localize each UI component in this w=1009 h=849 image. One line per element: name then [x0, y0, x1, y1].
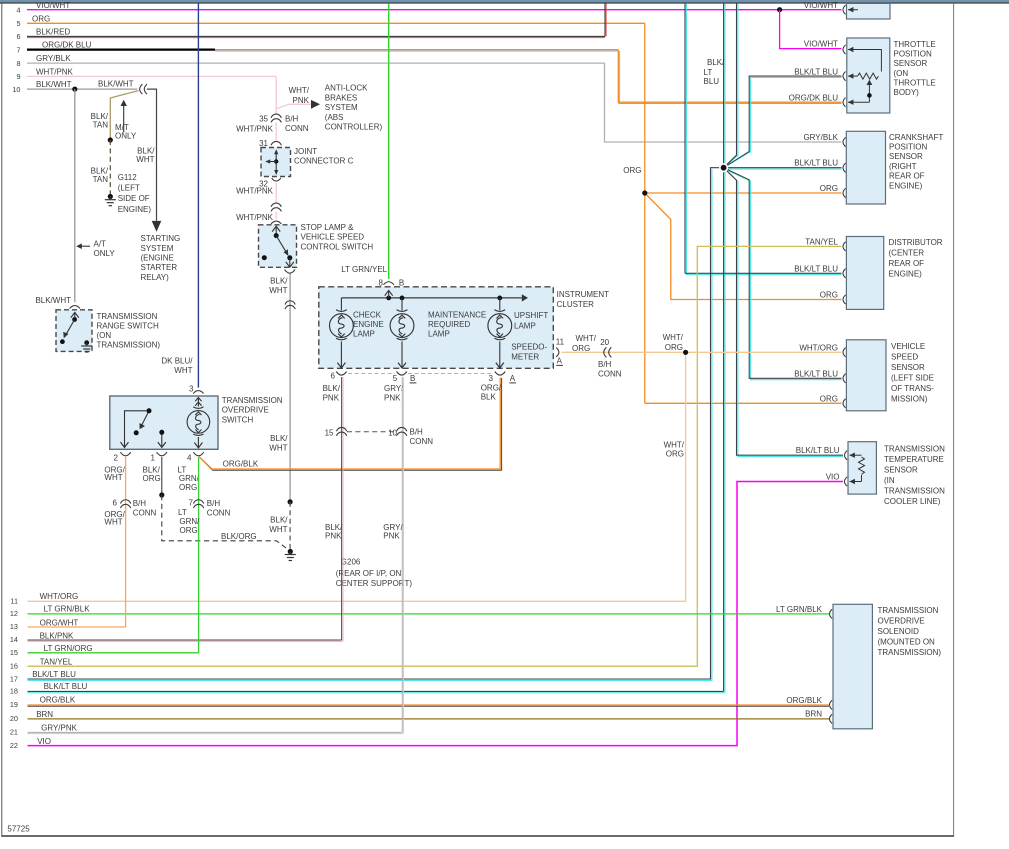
svg-text:BLK/: BLK/: [143, 466, 161, 475]
svg-text:(ABS: (ABS: [325, 113, 344, 122]
svg-text:COOLER LINE): COOLER LINE): [884, 497, 941, 506]
svg-text:13: 13: [10, 622, 18, 631]
svg-text:GRN/: GRN/: [179, 517, 200, 526]
svg-text:BLK/LT BLU: BLK/LT BLU: [44, 682, 88, 691]
svg-text:BLK/LT BLU: BLK/LT BLU: [32, 670, 76, 679]
svg-text:POSITION: POSITION: [894, 49, 932, 58]
svg-text:12: 12: [10, 609, 18, 618]
svg-text:4: 4: [187, 453, 192, 462]
svg-text:ORG: ORG: [820, 394, 838, 403]
svg-text:ORG/DK BLU: ORG/DK BLU: [789, 93, 839, 102]
svg-text:STARTING: STARTING: [141, 234, 181, 243]
svg-text:57725: 57725: [7, 825, 30, 834]
svg-text:OVERDRIVE: OVERDRIVE: [878, 616, 925, 625]
svg-text:B/H: B/H: [598, 360, 612, 369]
svg-text:G206: G206: [341, 558, 361, 567]
svg-text:11: 11: [10, 597, 18, 606]
svg-text:GRY/BLK: GRY/BLK: [803, 133, 838, 142]
svg-text:WHT: WHT: [104, 518, 122, 527]
svg-text:(IN: (IN: [884, 476, 895, 485]
svg-text:ORG: ORG: [32, 14, 50, 23]
svg-text:MAINTENANCE: MAINTENANCE: [428, 310, 486, 319]
svg-text:17: 17: [10, 674, 18, 683]
svg-text:CHECK: CHECK: [353, 310, 382, 319]
svg-text:10: 10: [388, 429, 397, 438]
svg-text:(ON: (ON: [894, 69, 909, 78]
svg-text:LAMP: LAMP: [428, 329, 450, 338]
svg-text:(REAR OF I/P, ON: (REAR OF I/P, ON: [336, 569, 402, 578]
svg-text:WHT: WHT: [269, 525, 287, 534]
svg-text:CONN: CONN: [207, 509, 231, 518]
svg-text:3: 3: [189, 385, 194, 394]
svg-text:ORG/DK BLU: ORG/DK BLU: [42, 41, 92, 50]
svg-text:1: 1: [151, 453, 156, 462]
svg-text:CENTER SUPPORT): CENTER SUPPORT): [336, 579, 413, 588]
svg-text:ENGINE): ENGINE): [118, 205, 152, 214]
svg-text:TRANSMISSION: TRANSMISSION: [884, 445, 945, 454]
svg-text:ONLY: ONLY: [115, 132, 137, 141]
svg-text:CONN: CONN: [598, 370, 622, 379]
svg-text:BLK/PNK: BLK/PNK: [40, 631, 74, 640]
svg-text:CLUSTER: CLUSTER: [557, 300, 595, 309]
svg-text:GRY/: GRY/: [383, 523, 403, 532]
svg-text:CONTROL SWITCH: CONTROL SWITCH: [301, 242, 374, 251]
svg-text:REAR OF: REAR OF: [889, 259, 925, 268]
svg-text:WHT/PNK: WHT/PNK: [236, 187, 274, 196]
svg-text:WHT/ORG: WHT/ORG: [40, 592, 79, 601]
svg-text:CONN: CONN: [285, 124, 309, 133]
svg-text:BLK/WHT: BLK/WHT: [35, 296, 71, 305]
svg-text:BRN: BRN: [36, 710, 53, 719]
svg-text:BLK/: BLK/: [325, 523, 343, 532]
svg-text:PNK: PNK: [293, 96, 310, 105]
svg-text:35: 35: [259, 115, 268, 124]
svg-text:15: 15: [325, 429, 334, 438]
svg-text:WHT/PNK: WHT/PNK: [236, 125, 274, 134]
svg-text:20: 20: [600, 338, 609, 347]
svg-text:WHT/PNK: WHT/PNK: [36, 68, 74, 77]
svg-text:BLK/: BLK/: [270, 276, 288, 285]
svg-text:LT GRN/BLK: LT GRN/BLK: [44, 605, 91, 614]
svg-text:CONTROLLER): CONTROLLER): [325, 123, 383, 132]
svg-text:ORG/BLK: ORG/BLK: [786, 696, 822, 705]
svg-text:ORG: ORG: [820, 291, 838, 300]
svg-text:3: 3: [489, 374, 494, 383]
svg-text:B/H: B/H: [133, 499, 147, 508]
svg-text:ANTI-LOCK: ANTI-LOCK: [325, 84, 368, 93]
svg-text:31: 31: [259, 139, 268, 148]
svg-text:LT: LT: [178, 508, 187, 517]
svg-text:CONN: CONN: [410, 437, 434, 446]
svg-text:VIO: VIO: [826, 473, 840, 482]
svg-text:INSTRUMENT: INSTRUMENT: [557, 290, 610, 299]
svg-text:SENSOR: SENSOR: [894, 59, 928, 68]
svg-text:SYSTEM: SYSTEM: [141, 244, 174, 253]
svg-text:B/H: B/H: [207, 499, 221, 508]
svg-text:B/H: B/H: [410, 427, 424, 436]
svg-text:TRANSMISSION): TRANSMISSION): [878, 648, 942, 657]
svg-text:10: 10: [12, 85, 20, 94]
svg-text:VIO: VIO: [37, 737, 51, 746]
svg-text:2: 2: [114, 453, 119, 462]
svg-text:BLK/LT BLU: BLK/LT BLU: [794, 264, 838, 273]
svg-text:CONNECTOR C: CONNECTOR C: [294, 156, 354, 165]
svg-text:7: 7: [189, 499, 194, 508]
svg-text:BLK/: BLK/: [323, 384, 341, 393]
svg-text:RELAY): RELAY): [141, 273, 170, 282]
svg-text:REQUIRED: REQUIRED: [428, 320, 470, 329]
svg-text:TAN/YEL: TAN/YEL: [40, 657, 73, 666]
svg-text:6: 6: [331, 372, 336, 381]
svg-text:GRY/: GRY/: [384, 384, 404, 393]
svg-text:5: 5: [393, 374, 398, 383]
svg-text:WHT/: WHT/: [664, 440, 685, 449]
svg-text:POSITION: POSITION: [889, 143, 927, 152]
svg-text:LT: LT: [704, 68, 713, 77]
svg-text:TAN: TAN: [93, 175, 109, 184]
svg-text:GRY/PNK: GRY/PNK: [41, 723, 78, 732]
svg-text:7: 7: [16, 45, 20, 54]
svg-text:BLK/: BLK/: [707, 58, 725, 67]
svg-text:WHT/: WHT/: [576, 334, 597, 343]
svg-text:SENSOR: SENSOR: [889, 152, 923, 161]
svg-text:TAN: TAN: [93, 121, 109, 130]
svg-text:6: 6: [16, 32, 20, 41]
svg-text:11: 11: [556, 338, 565, 347]
svg-text:16: 16: [10, 661, 18, 670]
svg-text:BLU: BLU: [704, 77, 720, 86]
svg-text:ENGINE: ENGINE: [353, 320, 384, 329]
svg-text:ORG: ORG: [143, 474, 161, 483]
svg-text:ORG/BLK: ORG/BLK: [223, 460, 259, 469]
svg-text:ONLY: ONLY: [94, 249, 116, 258]
svg-text:WHT: WHT: [269, 286, 287, 295]
svg-text:VEHICLE: VEHICLE: [891, 342, 925, 351]
svg-text:ORG: ORG: [180, 526, 198, 535]
svg-text:CRANKSHAFT: CRANKSHAFT: [889, 133, 943, 142]
svg-text:LT GRN/ORG: LT GRN/ORG: [44, 644, 93, 653]
svg-text:RANGE SWITCH: RANGE SWITCH: [97, 322, 159, 331]
svg-text:BLK/LT BLU: BLK/LT BLU: [796, 446, 840, 455]
svg-text:PNK: PNK: [383, 532, 400, 541]
svg-text:ORG/: ORG/: [481, 383, 502, 392]
svg-text:18: 18: [10, 687, 18, 696]
svg-text:PNK: PNK: [384, 393, 401, 402]
svg-text:VIO/WHT: VIO/WHT: [804, 40, 838, 49]
svg-text:STOP LAMP &: STOP LAMP &: [301, 223, 355, 232]
svg-text:VIO/WHT: VIO/WHT: [36, 1, 70, 10]
svg-text:BLK/: BLK/: [270, 516, 288, 525]
svg-text:LAMP: LAMP: [514, 322, 536, 331]
svg-text:ORG: ORG: [572, 344, 590, 353]
svg-text:8: 8: [16, 59, 20, 68]
svg-text:14: 14: [10, 635, 18, 644]
svg-text:GRN/: GRN/: [179, 474, 200, 483]
svg-text:9: 9: [16, 72, 20, 81]
svg-text:ENGINE): ENGINE): [889, 269, 923, 278]
svg-text:PNK: PNK: [323, 393, 340, 402]
svg-text:(ENGINE: (ENGINE: [141, 254, 174, 263]
svg-text:SPEEDO-: SPEEDO-: [511, 343, 547, 352]
svg-text:B/H: B/H: [285, 115, 299, 124]
svg-text:SWITCH: SWITCH: [222, 416, 254, 425]
svg-text:22: 22: [10, 741, 18, 750]
svg-text:(LEFT SIDE: (LEFT SIDE: [891, 374, 934, 383]
svg-text:6: 6: [113, 499, 118, 508]
svg-text:BRN: BRN: [805, 709, 822, 718]
svg-text:ORG: ORG: [666, 450, 684, 459]
svg-text:OF TRANS-: OF TRANS-: [891, 384, 934, 393]
svg-text:SYSTEM: SYSTEM: [325, 103, 358, 112]
svg-text:VIO/WHT: VIO/WHT: [804, 1, 838, 10]
svg-text:WHT: WHT: [104, 473, 122, 482]
svg-text:20: 20: [10, 714, 18, 723]
svg-text:BRAKES: BRAKES: [325, 93, 357, 102]
svg-text:5: 5: [16, 19, 20, 28]
svg-text:ORG: ORG: [820, 184, 838, 193]
svg-text:BLK/WHT: BLK/WHT: [98, 79, 134, 88]
svg-text:ORG: ORG: [623, 166, 641, 175]
svg-text:BLK/LT BLU: BLK/LT BLU: [794, 159, 838, 168]
svg-text:BLK/LT BLU: BLK/LT BLU: [794, 67, 838, 76]
svg-text:PNK: PNK: [325, 532, 342, 541]
svg-text:STARTER: STARTER: [141, 263, 178, 272]
svg-text:WHT/: WHT/: [289, 86, 310, 95]
svg-text:BLK: BLK: [481, 393, 497, 402]
svg-text:(RIGHT: (RIGHT: [889, 162, 917, 171]
svg-text:THROTTLE: THROTTLE: [894, 78, 936, 87]
svg-text:GRY/BLK: GRY/BLK: [36, 54, 71, 63]
svg-text:19: 19: [10, 700, 18, 709]
svg-text:DK BLU/: DK BLU/: [161, 356, 193, 365]
svg-text:METER: METER: [511, 353, 539, 362]
svg-text:ORG/WHT: ORG/WHT: [40, 618, 79, 627]
svg-text:(MOUNTED ON: (MOUNTED ON: [878, 637, 936, 646]
svg-text:LT: LT: [178, 466, 187, 475]
svg-text:MISSION): MISSION): [891, 395, 928, 404]
svg-text:WHT: WHT: [269, 444, 287, 453]
svg-text:TRANSMISSION: TRANSMISSION: [222, 396, 283, 405]
svg-text:BODY): BODY): [894, 88, 920, 97]
svg-text:TRANSMISSION): TRANSMISSION): [97, 341, 161, 350]
svg-text:(LEFT: (LEFT: [118, 184, 140, 193]
svg-text:WHT: WHT: [136, 155, 154, 164]
svg-text:THROTTLE: THROTTLE: [894, 40, 936, 49]
svg-text:G112: G112: [118, 173, 138, 182]
svg-text:ORG/BLK: ORG/BLK: [40, 696, 76, 705]
svg-text:21: 21: [10, 728, 18, 737]
svg-text:TRANSMISSION: TRANSMISSION: [884, 487, 945, 496]
svg-text:ENGINE): ENGINE): [889, 181, 923, 190]
svg-text:OVERDRIVE: OVERDRIVE: [222, 406, 269, 415]
svg-text:BLK/LT BLU: BLK/LT BLU: [794, 369, 838, 378]
svg-text:SENSOR: SENSOR: [884, 466, 918, 475]
svg-text:SIDE OF: SIDE OF: [118, 194, 150, 203]
svg-text:LAMP: LAMP: [353, 329, 375, 338]
svg-text:DISTRIBUTOR: DISTRIBUTOR: [889, 238, 943, 247]
svg-text:B: B: [410, 374, 415, 383]
svg-text:LT GRN/YEL: LT GRN/YEL: [341, 265, 387, 274]
svg-text:REAR OF: REAR OF: [889, 172, 925, 181]
svg-text:4: 4: [16, 6, 20, 15]
svg-text:BLK/: BLK/: [270, 434, 288, 443]
svg-text:SOLENOID: SOLENOID: [878, 627, 920, 636]
svg-text:CONN: CONN: [133, 509, 157, 518]
svg-text:WHT/ORG: WHT/ORG: [799, 343, 838, 352]
svg-text:JOINT: JOINT: [294, 147, 317, 156]
svg-text:WHT: WHT: [174, 366, 192, 375]
svg-text:TAN/YEL: TAN/YEL: [805, 237, 838, 246]
svg-text:BLK/WHT: BLK/WHT: [36, 80, 72, 89]
svg-text:TRANSMISSION: TRANSMISSION: [878, 606, 939, 615]
svg-text:A: A: [510, 374, 516, 383]
svg-text:VEHICLE SPEED: VEHICLE SPEED: [301, 233, 365, 242]
svg-text:TEMPERATURE: TEMPERATURE: [884, 455, 944, 464]
svg-text:(CENTER: (CENTER: [889, 248, 925, 257]
svg-text:A/T: A/T: [94, 239, 107, 248]
svg-text:SPEED: SPEED: [891, 353, 918, 362]
svg-text:ORG: ORG: [665, 343, 683, 352]
svg-text:A: A: [557, 356, 563, 365]
svg-text:15: 15: [10, 648, 18, 657]
svg-text:LT GRN/BLK: LT GRN/BLK: [776, 605, 823, 614]
svg-text:SENSOR: SENSOR: [891, 363, 925, 372]
svg-text:ORG: ORG: [179, 483, 197, 492]
svg-text:(ON: (ON: [97, 331, 112, 340]
svg-text:BLK/RED: BLK/RED: [36, 28, 70, 37]
svg-text:TRANSMISSION: TRANSMISSION: [97, 312, 158, 321]
svg-text:UPSHIFT: UPSHIFT: [514, 311, 548, 320]
svg-text:WHT/PNK: WHT/PNK: [236, 213, 274, 222]
svg-text:BLK/ORG: BLK/ORG: [221, 532, 257, 541]
svg-text:WHT/: WHT/: [663, 333, 684, 342]
